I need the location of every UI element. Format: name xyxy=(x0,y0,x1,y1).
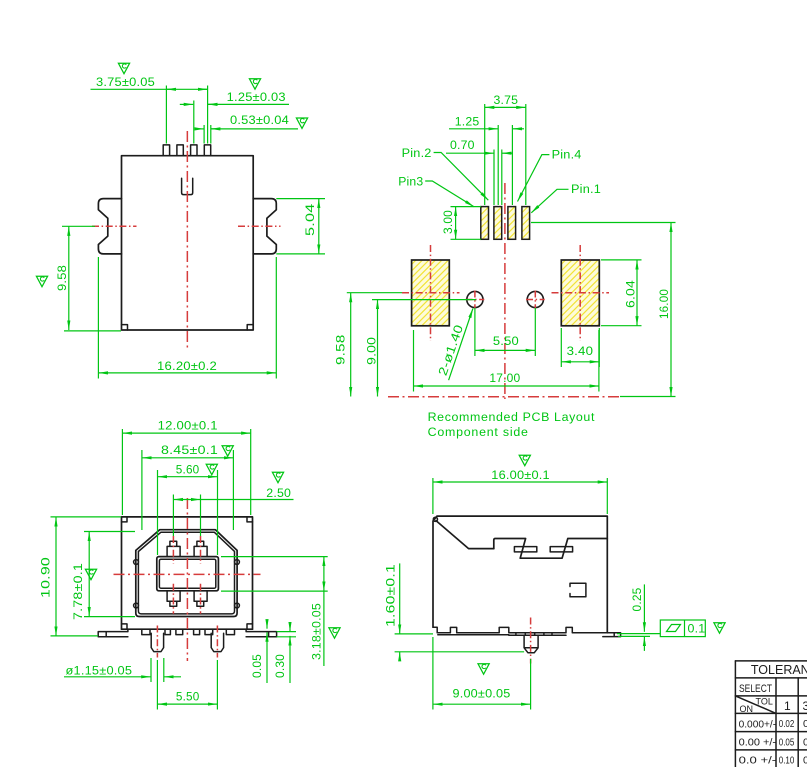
top view right mounting tab xyxy=(253,199,276,254)
svg-text:0.30: 0.30 xyxy=(273,654,287,678)
label Pin.2 with leader xyxy=(402,146,489,200)
front view shell opening outer xyxy=(136,530,237,617)
label Pin.4 with leader xyxy=(518,148,582,202)
front view shell opening inner xyxy=(138,532,234,614)
svg-text:8.45±0.1: 8.45±0.1 xyxy=(161,443,218,457)
PCB bottom red centerline xyxy=(388,396,622,398)
svg-text:3: 3 xyxy=(803,699,807,713)
finish triangle beside frame xyxy=(714,623,725,633)
PCB left pad crosshair xyxy=(402,245,460,341)
tolerance table texts xyxy=(739,663,807,767)
PCB dimension 9.58 xyxy=(334,293,403,397)
svg-text:3.40: 3.40 xyxy=(567,344,594,358)
dimension 12.00±0.1 xyxy=(122,419,250,516)
front view shell dimple bottom-right xyxy=(235,603,240,608)
front view contact upper-right xyxy=(194,541,207,556)
svg-text:0.0: 0.0 xyxy=(803,736,807,748)
svg-text:1.60±0.1: 1.60±0.1 xyxy=(384,564,398,627)
PCB dimension 1.25 xyxy=(449,114,524,205)
dimension 5.04 xyxy=(276,199,325,254)
svg-text:1.25±0.03: 1.25±0.03 xyxy=(227,90,286,104)
PCB dimension 9.00 xyxy=(365,300,477,397)
svg-text:TOL: TOL xyxy=(756,697,773,707)
front view shell dimple top-left xyxy=(134,560,139,565)
svg-text:1: 1 xyxy=(784,699,791,713)
dimension 0.53±0.04 xyxy=(195,113,307,143)
side view corner bend circle xyxy=(433,517,437,521)
svg-text:0.0: 0.0 xyxy=(803,754,807,766)
side view post centerline xyxy=(530,618,532,664)
front view tongue inner xyxy=(159,559,215,588)
top view left mounting tab xyxy=(98,199,121,254)
svg-text:0.05: 0.05 xyxy=(779,737,795,748)
PCB right post hole circle xyxy=(527,291,543,307)
PCB left hole crosshair xyxy=(466,291,485,309)
svg-text:Pin.2: Pin.2 xyxy=(402,146,432,160)
front view body xyxy=(122,517,253,629)
top view horizontal centerline right xyxy=(238,225,281,227)
front view right wing xyxy=(246,629,277,637)
svg-text:9.00±0.05: 9.00±0.05 xyxy=(453,687,511,701)
svg-text:16.20±0.2: 16.20±0.2 xyxy=(157,359,217,373)
top view solder pin 1 xyxy=(163,145,169,156)
svg-text:0.10: 0.10 xyxy=(779,755,795,766)
PCB left post hole circle xyxy=(467,291,483,307)
label Pin3 with leader xyxy=(398,175,474,207)
dimension ø1.15±0.05 xyxy=(64,658,181,682)
PCB dimension 0.70 xyxy=(446,138,512,205)
svg-text:5.60: 5.60 xyxy=(176,463,200,477)
front view feet xyxy=(142,629,235,634)
svg-text:6.04: 6.04 xyxy=(623,280,637,308)
side view body outline xyxy=(433,516,607,633)
svg-text:12.00±0.1: 12.00±0.1 xyxy=(158,419,218,433)
top view body xyxy=(122,156,254,330)
side view C-shaped stamp mark xyxy=(570,583,586,596)
flatness feature control frame 0.1 xyxy=(660,620,705,637)
svg-text:ON: ON xyxy=(740,704,754,714)
dimension 1.60±0.1 xyxy=(384,563,524,661)
dimension 3.75±0.05 xyxy=(91,63,208,143)
svg-text:Component side: Component side xyxy=(428,425,528,439)
PCB dimension 6.04 xyxy=(601,260,642,326)
svg-text:0.70: 0.70 xyxy=(450,138,475,152)
svg-text:Recommended PCB Layout: Recommended PCB Layout xyxy=(428,410,595,424)
svg-text:9.58: 9.58 xyxy=(334,335,348,366)
front view contact centerlines xyxy=(173,536,200,614)
svg-text:5.50: 5.50 xyxy=(176,690,200,704)
dimension 0.25 xyxy=(617,584,660,651)
svg-text:Pin3: Pin3 xyxy=(398,175,423,189)
front view left post xyxy=(151,633,163,651)
dimension 7.78±0.1 xyxy=(71,532,135,621)
dimension 1.25±0.03 xyxy=(180,79,289,144)
top view horizontal centerline left xyxy=(92,225,137,227)
dimension 10.90 xyxy=(39,517,121,636)
svg-text:Pin.4: Pin.4 xyxy=(552,148,582,162)
top view solder pin 2 xyxy=(177,145,183,156)
PCB right hole crosshair xyxy=(526,291,545,309)
side view latch bar left xyxy=(514,547,536,552)
svg-text:0.1: 0.1 xyxy=(688,622,706,636)
dimension 2.50 xyxy=(173,472,293,536)
svg-text:0.25: 0.25 xyxy=(630,588,644,612)
dimension 0.30 xyxy=(273,623,296,684)
dimension 0.05 xyxy=(250,620,267,684)
svg-text:9.00: 9.00 xyxy=(365,337,379,365)
PCB dimension 16.00 xyxy=(531,223,676,397)
svg-text:3.75: 3.75 xyxy=(494,93,519,107)
front view post centerlines xyxy=(157,626,217,658)
dimension 16.00±0.1 xyxy=(433,455,607,514)
side view post xyxy=(524,635,538,652)
side view right wing xyxy=(603,633,621,637)
svg-text:3.00: 3.00 xyxy=(441,210,455,234)
PCB dimension 5.50 xyxy=(475,308,535,356)
svg-text:7.78±0.1: 7.78±0.1 xyxy=(71,563,85,620)
front view shell dimple top-right xyxy=(235,560,240,565)
svg-text:ø1.15±0.05: ø1.15±0.05 xyxy=(66,664,133,678)
svg-text:TOLERANCE: TOLERANCE xyxy=(751,663,807,677)
dimension 8.45±0.1 xyxy=(142,443,234,530)
svg-text:1.25: 1.25 xyxy=(455,114,480,128)
front view contact lower-left xyxy=(167,591,180,607)
PCB dimension 3.75 xyxy=(485,93,526,205)
svg-text:Pin.1: Pin.1 xyxy=(571,182,601,196)
svg-text:5.50: 5.50 xyxy=(493,334,519,348)
svg-text:0.53±0.04: 0.53±0.04 xyxy=(230,113,289,127)
PCB dimension 17.00 xyxy=(414,330,599,392)
label Pin.1 with leader xyxy=(531,182,601,213)
PCB dimension 3.00 xyxy=(441,207,481,240)
PCB pad pin3 (leftmost small pad) xyxy=(481,207,489,240)
front view tongue outer xyxy=(157,557,219,591)
svg-text:0.0: 0.0 xyxy=(803,718,807,730)
PCB dimension 3.40 xyxy=(561,328,599,367)
svg-text:17.00: 17.00 xyxy=(489,371,520,385)
side view bottom profile xyxy=(433,627,603,635)
svg-text:10.90: 10.90 xyxy=(39,557,53,598)
front view horizontal centerline xyxy=(114,573,261,575)
front view shell dimple bottom-left xyxy=(134,603,139,608)
dimension 16.20±0.2 xyxy=(98,257,276,379)
PCB right mounting pad xyxy=(561,260,599,326)
svg-text:SELECT: SELECT xyxy=(739,683,772,695)
PCB pad pin2 xyxy=(494,207,502,240)
top view solder pin 4 xyxy=(204,145,210,156)
PCB left mounting pad xyxy=(412,260,450,326)
front view right post xyxy=(211,633,223,651)
side view latch bar right xyxy=(550,547,572,552)
svg-text:3.75±0.05: 3.75±0.05 xyxy=(96,75,155,89)
svg-text:0.00 +/-: 0.00 +/- xyxy=(739,737,777,749)
tolerance table grid xyxy=(735,661,807,767)
front view contact upper-left xyxy=(167,541,180,556)
side view top latch profile xyxy=(494,539,608,559)
PCB pad pin1 xyxy=(522,207,530,240)
dimension 5.60 xyxy=(158,463,218,556)
svg-text:16.00±0.1: 16.00±0.1 xyxy=(491,468,550,482)
svg-text:0.05: 0.05 xyxy=(250,654,264,678)
front view left wing xyxy=(98,629,128,637)
dimension 9.00±0.05 xyxy=(433,637,531,710)
top view U-shaped notch xyxy=(182,178,193,194)
leader 2-ø1.40 xyxy=(436,309,473,381)
svg-text:9.58: 9.58 xyxy=(55,265,69,291)
dimension 5.50 (front view) xyxy=(157,660,217,710)
PCB vertical centerline xyxy=(504,183,506,399)
svg-text:3.18±0.05: 3.18±0.05 xyxy=(309,603,323,660)
top view vertical centerline xyxy=(186,131,188,348)
side view chamfer edge xyxy=(436,521,494,549)
dimension 9.58 (top view) xyxy=(36,226,121,331)
svg-text:16.00: 16.00 xyxy=(657,289,671,319)
front view contact lower-right xyxy=(194,591,207,607)
svg-text:0.02: 0.02 xyxy=(779,719,795,730)
PCB pad pin4 xyxy=(508,207,516,240)
svg-text:0.000+/-: 0.000+/- xyxy=(739,718,777,730)
svg-text:0.0 +/-: 0.0 +/- xyxy=(739,755,777,767)
dimension 3.18±0.05 xyxy=(221,557,340,666)
svg-text:5.04: 5.04 xyxy=(303,204,317,237)
svg-text:2-ø1.40: 2-ø1.40 xyxy=(436,323,466,378)
svg-text:2.50: 2.50 xyxy=(266,486,291,500)
front view vertical centerline xyxy=(186,498,188,661)
top view solder pin 3 xyxy=(191,145,197,156)
PCB right pad crosshair xyxy=(552,245,610,341)
